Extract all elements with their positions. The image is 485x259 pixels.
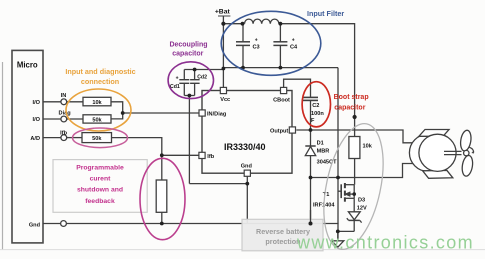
svg-text:Micro: Micro [17, 61, 38, 70]
scan edge line [2, 62, 4, 250]
op-amp ic IR3330/40 body [202, 91, 292, 174]
node Cd2 top [193, 68, 197, 72]
wire decoupling down [188, 96, 190, 184]
wire 10k to drain [354, 159, 356, 185]
capacitor Cd2 [194, 70, 196, 80]
reverse battery protection box [242, 219, 323, 251]
svg-text:Input and diagnostic: Input and diagnostic [65, 67, 135, 76]
resistor 10k [83, 97, 111, 106]
svg-text:10k: 10k [92, 100, 102, 106]
node Vcc rail junction [222, 67, 226, 71]
node Gnd terminal [61, 221, 67, 227]
svg-text:Boot strap: Boot strap [334, 94, 369, 101]
node gate junction [336, 176, 340, 180]
wire IN row [43, 101, 61, 103]
svg-text:+: + [255, 38, 258, 44]
node filter vertical dot [353, 115, 357, 119]
svg-text:A/D: A/D [30, 136, 40, 142]
motor M1 [409, 130, 474, 179]
wire feedback resistor to gnd rail [161, 212, 163, 223]
resistor 50k [83, 115, 111, 123]
capacitor C2 [303, 96, 319, 98]
node feedback gnd junction [160, 222, 164, 226]
svg-text:MBR: MBR [317, 149, 330, 155]
wire source to D3 [353, 198, 355, 212]
wire IC gnd pin down [246, 176, 248, 223]
wire CBoot to C2 [284, 79, 311, 97]
wire filter top rail right [279, 24, 355, 137]
fan blade top [459, 130, 472, 152]
svg-text:IN: IN [61, 93, 67, 99]
wire filter top rail left [223, 23, 244, 25]
programmable box [53, 160, 147, 213]
diode D3 zener [348, 212, 360, 220]
wire D3 to ground stub [338, 230, 354, 232]
svg-text:D3: D3 [358, 198, 365, 204]
svg-text:capacitor: capacitor [172, 50, 203, 57]
node C3 bottom [241, 66, 245, 70]
svg-text:www.cntronics.com: www.cntronics.com [296, 233, 474, 253]
svg-text:Ifb: Ifb [60, 130, 67, 136]
wire output [296, 130, 414, 143]
svg-text:feedback: feedback [85, 198, 115, 205]
svg-text:+Bat: +Bat [215, 9, 231, 16]
svg-text:C3: C3 [253, 44, 260, 50]
svg-text:10k: 10k [363, 144, 373, 150]
svg-text:100n: 100n [311, 111, 324, 117]
svg-text:Input Filter: Input Filter [307, 9, 344, 18]
node Bat rail junction [221, 22, 225, 26]
wire decoupling to gnd pin [189, 183, 247, 185]
node IN [61, 99, 67, 105]
transistor T1 [337, 178, 339, 241]
annotation magenta ellipse [140, 158, 185, 239]
annotation blue ellipse input filter [221, 11, 321, 75]
wire D1 over box [310, 210, 312, 224]
svg-text:Gnd: Gnd [29, 223, 41, 229]
node Diag [61, 116, 67, 122]
wire corner to Ifb pin [162, 154, 199, 156]
svg-text:IR3330/40: IR3330/40 [224, 142, 266, 152]
annotation orange ellipse [66, 89, 131, 131]
svg-text:I/O: I/O [33, 117, 41, 123]
svg-text:50k: 50k [92, 136, 102, 142]
svg-text:T1: T1 [323, 192, 330, 198]
svg-text:CBoot: CBoot [273, 97, 290, 103]
capacitor C3 [242, 24, 244, 42]
svg-text:C2: C2 [312, 103, 319, 109]
wire junction to IN/Diag pin [123, 112, 199, 114]
node output C2 junction [309, 128, 313, 132]
inductor L1 [245, 19, 279, 24]
pin Ifb [199, 152, 205, 158]
capacitor Cd1 [183, 70, 185, 80]
svg-text:capacitor: capacitor [334, 104, 365, 111]
node inductor right [279, 22, 283, 26]
ground [332, 241, 344, 247]
svg-text:12V: 12V [357, 205, 367, 211]
wire decoupling bottom rail [184, 95, 194, 97]
resistor feedback [156, 180, 167, 212]
node inductor left [241, 22, 245, 26]
micro block [12, 50, 43, 243]
wire 50k to junction [111, 113, 123, 119]
svg-text:Decoupling: Decoupling [169, 42, 207, 49]
svg-text:Ifb: Ifb [207, 154, 214, 160]
svg-text:+: + [176, 76, 179, 82]
svg-text:D1: D1 [317, 141, 324, 147]
node Ifb [61, 135, 67, 141]
svg-text:C4: C4 [290, 44, 298, 50]
svg-text:connection: connection [81, 77, 119, 86]
svg-text:curent: curent [90, 175, 112, 182]
node ground stub junction [336, 230, 340, 234]
diode D1 [310, 130, 312, 146]
svg-text:Cd2: Cd2 [197, 75, 207, 81]
capacitor C4 [279, 24, 281, 42]
wire decoupling top rail [184, 69, 223, 71]
wire motor low side [311, 164, 415, 178]
wire Diag row [43, 118, 61, 120]
wire Gnd rail [43, 223, 61, 225]
svg-text:F: F [311, 118, 315, 124]
IC pin squares [199, 87, 296, 176]
node resistor junction [121, 111, 125, 115]
annotation red ellipse bootstrap [302, 82, 330, 127]
resistor 50k (Ifb) [82, 133, 112, 143]
node gnd decoupling junction [245, 182, 249, 186]
annotation purple ellipse [168, 62, 213, 99]
svg-text:Diag: Diag [59, 111, 72, 117]
node Ifb junction [160, 153, 164, 157]
svg-text:IN/Diag: IN/Diag [207, 112, 227, 118]
svg-text:50k: 50k [92, 117, 102, 123]
annotation pink ellipse small [73, 128, 128, 148]
node D1 low junction [309, 176, 313, 180]
node C4 bottom [279, 66, 283, 70]
svg-text:3045CT: 3045CT [317, 160, 337, 166]
pin Gnd [244, 170, 250, 176]
fan blade bottom [461, 155, 474, 177]
grey ellipse protection [314, 118, 393, 254]
pin Output [289, 127, 295, 133]
wire down to feedback resistor [161, 155, 163, 180]
svg-text:shutdown and: shutdown and [77, 187, 123, 194]
pin CBoot [281, 87, 287, 93]
svg-text:I/O: I/O [33, 100, 41, 106]
node D1 gnd junction [309, 222, 313, 226]
wire 50k Ifb to corner [112, 138, 162, 156]
svg-text:Output: Output [270, 129, 288, 135]
node decoupling mid [188, 94, 192, 98]
black labels [17, 9, 373, 229]
svg-text:Gnd: Gnd [241, 164, 253, 170]
wire 10k to junction [111, 102, 123, 113]
wire +Bat bar [218, 15, 230, 17]
svg-text:Programmable: Programmable [76, 164, 124, 171]
pin IN/Diag [199, 110, 205, 116]
wire Ifb row [43, 137, 61, 139]
resistor 10k (gate) [349, 137, 360, 159]
svg-text:+: + [292, 38, 295, 44]
pin Vcc [220, 87, 226, 93]
wire filter bottom rail [223, 67, 338, 69]
svg-text:protection: protection [265, 237, 300, 246]
wire +Bat down to Vcc [222, 16, 224, 87]
svg-text:Vcc: Vcc [220, 97, 230, 103]
node mosfet body [352, 192, 356, 196]
